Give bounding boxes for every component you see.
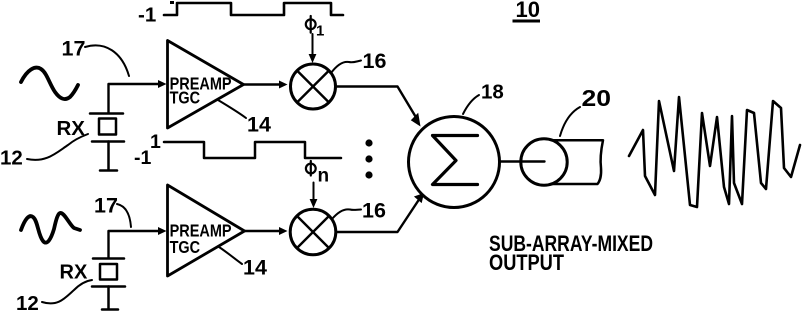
sigma symbol [433,136,478,185]
svg-text:TGC: TGC [170,237,201,257]
leader 17 (ch n) [117,204,131,227]
ellipsis dots between channels [365,139,372,146]
leader 12 to transducer (ch1) [27,134,88,160]
square wave clock 1 (top, partially cut off) [164,3,343,15]
leader 20 [560,107,580,136]
svg-text:1: 1 [316,23,324,40]
mixer U2 (ch n) [290,209,336,255]
wire transducer to preamp (ch n) [109,231,161,258]
sub-array mixed output waveform [629,97,800,207]
svg-text:18: 18 [481,81,504,104]
svg-text:n: n [318,166,330,187]
cut-off label 1 remnant dot [170,1,174,4]
delay element circle 20 [521,139,567,185]
square wave clock n (middle) [164,142,341,158]
op-amp preamp/TGC A1 (ch1) [168,41,244,129]
transducer element RX (ch n) [92,259,125,310]
arrow phi-1 to mixer U1 [312,34,314,56]
wire mixer1 to summer [336,87,418,120]
phi-1 symbol [306,16,316,33]
leader 18 [463,95,479,114]
delay element body (rect with torn edge) [545,140,603,184]
svg-text:-1: -1 [138,4,156,27]
svg-text:12: 12 [0,147,23,170]
svg-text:RX: RX [60,262,88,284]
svg-text:17: 17 [94,194,118,218]
phi-n symbol [306,161,316,176]
op-amp preamp/TGC A2 (ch n) [168,185,245,276]
leader 12 (ch n) [42,280,92,303]
svg-text:20: 20 [582,85,612,111]
svg-text:OUTPUT: OUTPUT [489,250,564,275]
arrow phi-n to mixer U2 [313,183,315,202]
svg-text:14: 14 [247,113,271,137]
wire preamp to mixer (ch n) [245,230,282,232]
wire summer to delay element [500,160,545,162]
leader 16 (ch n) [332,209,361,219]
sine input wave channel n [21,213,80,243]
wire mixer-n to summer [336,198,420,232]
mixer U1 (ch1) [291,64,336,109]
summer U3 [409,117,500,208]
svg-text:-1: -1 [134,147,151,169]
svg-text:TGC: TGC [170,88,201,108]
svg-text:16: 16 [363,49,387,73]
svg-text:17: 17 [62,37,86,61]
svg-text:12: 12 [16,292,39,315]
sine input wave channel 1 [21,68,78,99]
transducer element RX (ch1) [90,114,124,171]
svg-text:14: 14 [243,256,267,280]
leader 14 (ch n) [219,247,242,264]
svg-text:16: 16 [362,199,386,223]
leader 17 to wire [85,45,129,76]
svg-text:1: 1 [150,131,161,153]
wire preamp to mixer (ch1) [244,83,282,85]
wire transducer to preamp (ch1) [109,84,161,113]
leader 14 (ch1) [218,100,246,118]
leader 16 (ch1) [331,61,361,74]
svg-text:10: 10 [516,0,540,22]
